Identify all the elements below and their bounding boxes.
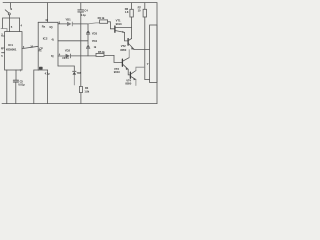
wire R7 down	[144, 17, 146, 80]
wire IC2 top pin	[47, 3, 49, 22]
wire R6 to collectors	[131, 17, 133, 39]
wire R5 right	[104, 54, 114, 56]
svg-text:IC2: IC2	[43, 36, 48, 40]
svg-text:0.01μ: 0.01μ	[18, 82, 25, 86]
svg-text:4.7μ: 4.7μ	[45, 72, 50, 76]
resistor R6 body	[130, 9, 133, 17]
svg-text:KD9561: KD9561	[6, 48, 17, 52]
svg-text:C6 0.1: C6 0.1	[62, 57, 69, 60]
transistor VT1 collector	[116, 26, 132, 28]
IC1 left pin stub y48	[1, 47, 4, 49]
resistor R3 body	[80, 86, 83, 92]
speaker Y box	[150, 25, 157, 83]
wire x47.6 to ground rail	[47, 70, 49, 104]
wire x114 down	[113, 55, 115, 62]
wire VD1 to node	[73, 23, 88, 25]
wire VD2 to R5	[71, 55, 96, 57]
svg-text:9013: 9013	[114, 70, 120, 74]
transistor VT2 collector	[129, 39, 132, 41]
wire switch to IC1 pin	[9, 15, 11, 32]
transistor VT2 emitter	[129, 44, 134, 49]
resistor R4 body	[100, 20, 108, 23]
resistor R5 body	[96, 53, 104, 56]
transistor VT4 emitter	[131, 77, 136, 80]
wire C4 to battery	[80, 12, 82, 86]
diode VD4	[86, 44, 90, 49]
wire C4 branch top	[80, 3, 82, 10]
wire VD5 top	[73, 66, 75, 71]
IC2 box left edge	[37, 22, 39, 46]
wire R4 to VT1 base	[108, 22, 115, 29]
IC1 left pin stub y36	[2, 35, 5, 37]
wire VD4 bottom	[87, 49, 89, 56]
diode VD2	[66, 54, 71, 59]
wire IC2 pin3 to VD1	[58, 23, 67, 25]
wire IC1 top pin 2	[19, 18, 21, 32]
wire VD5 down fading	[73, 75, 75, 85]
oscillator component blob	[39, 67, 43, 70]
wire VD3 to VD4	[87, 35, 89, 45]
svg-text:8050: 8050	[125, 81, 131, 85]
svg-text:YD5: YD5	[77, 72, 82, 75]
transistor VT2 base bar	[127, 39, 129, 46]
wire x58 stub down	[57, 56, 59, 66]
wire horizontal y18	[3, 17, 20, 19]
svg-text:YD4: YD4	[92, 39, 98, 43]
wire VT3 collector up	[128, 50, 130, 58]
svg-text:9(): 9()	[49, 25, 52, 29]
wire VT3 emitter to VT4 base	[128, 69, 130, 75]
wire VT4 collector up	[136, 67, 145, 70]
resistor R7 wire top	[144, 3, 146, 10]
resistor R6 wire top	[131, 3, 133, 10]
svg-text:1.8k: 1.8k	[84, 90, 89, 94]
wire left rail	[2, 18, 4, 29]
switch S contact circle	[8, 13, 10, 15]
wire switch top stub	[10, 3, 12, 8]
diode VD3	[86, 30, 90, 35]
wire bottom rail	[2, 103, 157, 105]
wire R7 to speaker bottom	[145, 79, 150, 81]
wire node to R4	[88, 23, 100, 24]
transistor VT3 collector	[123, 58, 129, 61]
svg-text:0.1μ: 0.1μ	[81, 13, 86, 17]
svg-text:R4 1k: R4 1k	[98, 16, 105, 20]
wire IC1 bottom pin to ground rail	[6, 70, 8, 104]
svg-text:Y: Y	[147, 62, 149, 66]
IC2 box right edge down to corner	[57, 22, 59, 56]
transistor VT4 base bar	[129, 72, 131, 78]
IC1 left pin stub y52.7	[2, 52, 5, 54]
resistor R7 body	[143, 9, 146, 17]
capacitor C4	[78, 9, 84, 11]
wire VT4 emitter down fading	[135, 80, 137, 86]
svg-text:9013: 9013	[116, 22, 122, 26]
svg-text:6]: 6]	[51, 54, 53, 58]
wire VT2 emitter to speaker	[134, 48, 150, 51]
IC1 box	[5, 32, 22, 70]
wire y28.6 stub	[1, 29, 7, 32]
wire x33.8 to ground rail	[33, 70, 35, 104]
transistor VT1 emitter	[116, 31, 125, 33]
wire y70 oscillator	[34, 69, 48, 71]
VT2 emitter arrow	[131, 47, 134, 50]
svg-text:8050: 8050	[120, 48, 126, 52]
wire right border	[156, 3, 158, 104]
wire top rail	[3, 2, 157, 4]
wire y66 to VD5	[58, 65, 74, 67]
wire corner to VD2	[58, 55, 66, 57]
transistor VT3 base bar	[121, 59, 123, 66]
svg-text:IC1: IC1	[8, 43, 13, 47]
svg-text:S: S	[10, 7, 12, 11]
wire IC2 right pin y40.8	[58, 40, 88, 42]
svg-text:R5 4k: R5 4k	[98, 50, 105, 54]
transistor VT3 emitter	[123, 65, 128, 70]
transistor VT1 base bar	[114, 26, 116, 32]
wire IC2 left edge down to oscillator net	[37, 46, 39, 70]
capacitor C5	[13, 79, 18, 81]
transistor VT4 collector	[131, 71, 136, 74]
wire VT1 emitter down	[124, 32, 126, 41]
switch S lever	[5, 10, 9, 13]
wire VD3 top	[87, 24, 89, 30]
VT3 emitter arrow	[126, 67, 129, 70]
wire IC1 pin3 to IC2	[22, 46, 38, 48]
IC2 box top edge	[38, 21, 58, 23]
VT1 emitter arrow	[122, 31, 124, 33]
wire IC1 bottom pin to C5	[15, 70, 17, 80]
svg-text:1.8: 1.8	[125, 10, 129, 14]
wire R3 to ground rail	[80, 93, 82, 104]
wire C5 to ground rail	[15, 82, 17, 103]
svg-text:YD2: YD2	[65, 49, 71, 53]
wire to VT2 base	[125, 40, 128, 42]
svg-text:4): 4)	[51, 38, 53, 42]
VT4 emitter arrow	[133, 78, 136, 80]
diode VD5	[72, 71, 76, 75]
wire to VT3 base	[114, 61, 122, 63]
diode VD1	[67, 22, 73, 27]
svg-text:YD3: YD3	[92, 32, 98, 36]
svg-text:YD1: YD1	[65, 18, 71, 22]
